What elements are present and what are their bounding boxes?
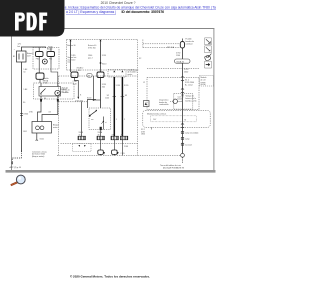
fuse block D (battery junction) dashed box bbox=[33, 48, 59, 70]
wire 1 lower with exit arrow bbox=[75, 78, 79, 97]
viewer icon: fullscreen 1 bbox=[204, 38, 211, 45]
svg-text:G101: G101 bbox=[40, 138, 44, 140]
viewer icon: next arrow bbox=[204, 61, 211, 68]
svg-text:86: 86 bbox=[44, 98, 46, 100]
svg-text:1: 1 bbox=[116, 119, 117, 121]
viewer icon: fullscreen 2 bbox=[204, 46, 211, 53]
relay KR73 dashed box bbox=[34, 83, 75, 99]
svg-text:e. Incluye: Esquematico del ci: e. Incluye: Esquematico del circuito de … bbox=[65, 5, 216, 9]
wire battery negative down bbox=[21, 62, 23, 152]
wire to ground dashed bbox=[182, 157, 184, 163]
svg-text:3 RD: 3 RD bbox=[102, 55, 107, 57]
svg-text:2340: 2340 bbox=[184, 71, 188, 73]
relay contact arm bbox=[41, 89, 46, 94]
connector inline on battery wire bbox=[20, 113, 23, 115]
dashed line to splice bbox=[138, 154, 181, 156]
rail pin ticks with labels bbox=[181, 131, 184, 133]
connector arc below module bbox=[181, 123, 184, 126]
splice pack under X1 bbox=[73, 144, 92, 152]
svg-text:50: 50 bbox=[23, 71, 25, 73]
wire to connector 1 bbox=[81, 102, 83, 136]
junction block F bbox=[32, 122, 52, 134]
inner dashed boundary of fuse block bbox=[61, 143, 138, 145]
thick wire 4 bbox=[121, 77, 123, 136]
mini box symbol bbox=[144, 101, 150, 107]
fusible link pill bbox=[36, 73, 44, 79]
splice S110 bbox=[100, 62, 102, 64]
svg-text:combust: combust bbox=[186, 42, 194, 45]
svg-text:X4: X4 bbox=[88, 75, 90, 77]
wire stub to splice S200 bbox=[93, 76, 95, 100]
svg-text:bat: bat bbox=[18, 45, 21, 48]
svg-text:X3: X3 bbox=[112, 135, 114, 137]
connector pill X50A bbox=[175, 59, 191, 63]
svg-text:B24: B24 bbox=[23, 131, 26, 133]
svg-text:Lamp: Lamp bbox=[185, 139, 190, 141]
svg-text:bomba comb: bomba comb bbox=[186, 100, 197, 102]
svg-text:neg: neg bbox=[68, 62, 71, 64]
BCM name label box bbox=[200, 76, 214, 87]
svg-text:pos 2: pos 2 bbox=[88, 57, 93, 59]
svg-text:31: 31 bbox=[79, 135, 81, 137]
svg-text:(bloque motor): (bloque motor) bbox=[32, 155, 45, 158]
svg-text:Modulo bomba combust: Modulo bomba combust bbox=[147, 112, 167, 115]
BCM outer dashed box bbox=[147, 68, 199, 70]
svg-text:2010 Chevrolet Cruze ?: 2010 Chevrolet Cruze ? bbox=[101, 1, 136, 5]
wire relay pin 85 bbox=[42, 102, 58, 122]
logic box L bbox=[174, 94, 193, 110]
viewer icon: hand/sign tool bbox=[205, 54, 212, 61]
fuse F1 bbox=[36, 52, 44, 57]
wire relay to junction box bbox=[38, 102, 42, 122]
fuse pill under X2 bbox=[100, 140, 102, 150]
svg-text:X50A 46: X50A 46 bbox=[176, 60, 184, 63]
svg-text:B+ senal: B+ senal bbox=[185, 84, 193, 86]
wire dashed tail to APP bbox=[12, 151, 21, 163]
wire L to ignition switch bbox=[88, 100, 97, 109]
dashed boundary bbox=[59, 101, 88, 103]
svg-text:© 2020 General Motors. Todos: © 2020 General Motors. Todos los derecho… bbox=[70, 274, 150, 278]
svg-text:S3: S3 bbox=[125, 95, 127, 97]
module dashed box lower (rounded) bbox=[143, 111, 210, 128]
PDF badge bbox=[0, 0, 65, 37]
svg-text:S110: S110 bbox=[102, 64, 106, 66]
connector X4 (hatched) bbox=[120, 136, 128, 140]
svg-text:46: 46 bbox=[98, 135, 100, 137]
svg-text:APP (2) p.14: APP (2) p.14 bbox=[10, 166, 22, 169]
svg-text:motor: motor bbox=[128, 73, 133, 76]
svg-text:(BLOQUE FUSIBLES IP): (BLOQUE FUSIBLES IP) bbox=[163, 168, 184, 170]
svg-text:a 2.0 LT | Esquemas y diagrama: a 2.0 LT | Esquemas y diagramas | bbox=[66, 10, 116, 14]
connector X3 (hatched) bbox=[111, 136, 119, 140]
svg-text:2 BN: 2 BN bbox=[124, 146, 129, 148]
connector X1 (hatched) bbox=[78, 136, 86, 140]
wire down right rail bbox=[182, 63, 184, 153]
svg-text:2 BN: 2 BN bbox=[121, 153, 126, 155]
wire 2 down to ignition switch bbox=[100, 78, 102, 109]
svg-text:X2: X2 bbox=[139, 58, 141, 60]
relay coil bbox=[55, 90, 60, 95]
svg-text:Tierra del tablero de instr: Tierra del tablero de instr bbox=[160, 164, 181, 167]
svg-text:X4: X4 bbox=[49, 112, 51, 114]
svg-text:2 RD 440: 2 RD 440 bbox=[60, 91, 68, 93]
svg-text:2 RD 340: 2 RD 340 bbox=[75, 101, 83, 103]
exit arrows above bottom edge bbox=[103, 152, 105, 155]
svg-text:342: 342 bbox=[102, 86, 105, 88]
svg-text:Lamp encendido: Lamp encendido bbox=[185, 133, 198, 135]
svg-text:1140: 1140 bbox=[105, 97, 109, 99]
svg-text:(BCM): (BCM) bbox=[201, 84, 207, 86]
stud circle bbox=[42, 59, 47, 64]
relay KR73 body bbox=[39, 87, 61, 97]
svg-text:3 RD: 3 RD bbox=[124, 85, 129, 87]
battery B1 bbox=[17, 51, 27, 62]
thick wire 3 bbox=[113, 77, 115, 136]
pin tick on rail bbox=[181, 94, 184, 96]
wire feed 1 in block bbox=[70, 40, 72, 73]
wire from fuse F27 down bbox=[182, 48, 184, 59]
svg-text:1140: 1140 bbox=[176, 55, 180, 57]
svg-text:1140: 1140 bbox=[73, 83, 77, 85]
wires to bottom dashed edge bbox=[100, 154, 102, 155]
IP fuse block dashed box B bbox=[58, 76, 60, 156]
svg-text:F27 15A: F27 15A bbox=[167, 46, 175, 49]
underhood fuse block X50A dashed box bbox=[67, 39, 138, 41]
svg-text:comb: comb bbox=[178, 101, 182, 103]
svg-text:1850: 1850 bbox=[141, 134, 145, 136]
relay pin squares bbox=[40, 99, 42, 102]
svg-text:ID del documento: 3507676: ID del documento: 3507676 bbox=[122, 10, 165, 14]
splice circle on rail bbox=[181, 153, 185, 157]
inline connector on right rail bbox=[181, 76, 184, 79]
fusible link pill on wire 2 bbox=[97, 72, 104, 78]
svg-text:5 RD: 5 RD bbox=[29, 112, 34, 114]
ignition switch dashed box bbox=[89, 108, 111, 130]
inner dotted box bbox=[151, 116, 197, 122]
svg-text:F81: F81 bbox=[49, 58, 52, 60]
svg-text:fusibles: fusibles bbox=[46, 51, 52, 53]
svg-text:Bateria 30: Bateria 30 bbox=[67, 44, 75, 47]
svg-text:X4: X4 bbox=[121, 135, 123, 137]
fusible link pill on wire 1 bbox=[71, 72, 78, 78]
magnifier zoom cursor bbox=[11, 175, 25, 185]
fuse F27 top right bbox=[180, 42, 184, 49]
BCM dashed box bbox=[147, 77, 199, 109]
wire under X4 bbox=[121, 140, 123, 156]
fuse F2 bbox=[47, 52, 55, 57]
svg-text:5 RD: 5 RD bbox=[116, 85, 121, 87]
inline connector 2 on right rail bbox=[181, 88, 184, 91]
frame bottom thick rule bbox=[6, 170, 216, 173]
svg-text:J2: J2 bbox=[143, 82, 145, 84]
svg-text:B1: B1 bbox=[13, 56, 15, 58]
pin stubs bbox=[38, 48, 40, 52]
pin stub below module bbox=[151, 127, 153, 129]
ignition switch contacts bbox=[90, 111, 97, 116]
indicator circle bbox=[173, 99, 177, 103]
wire block F to ground bbox=[36, 133, 38, 140]
svg-text:2 RD: 2 RD bbox=[77, 70, 82, 72]
schematic frame bbox=[12, 29, 215, 172]
connector X2 (hatched) bbox=[97, 136, 105, 140]
splice ticks bbox=[113, 96, 117, 98]
svg-text:F80: F80 bbox=[36, 58, 39, 60]
svg-text:motor: motor bbox=[53, 126, 58, 129]
svg-text:Carrusel: Carrusel bbox=[185, 144, 192, 146]
svg-text:run: run bbox=[91, 118, 94, 121]
wire battery to fuse box bbox=[22, 47, 46, 51]
fuse pill under X3 bbox=[113, 140, 115, 150]
svg-text:3 RD 350: 3 RD 350 bbox=[88, 47, 96, 49]
feed box H for thick wires bbox=[108, 70, 126, 78]
wire feed 2 in block bbox=[100, 40, 102, 73]
svg-text:2: 2 bbox=[124, 119, 125, 121]
svg-text:combustible: combustible bbox=[159, 103, 169, 106]
